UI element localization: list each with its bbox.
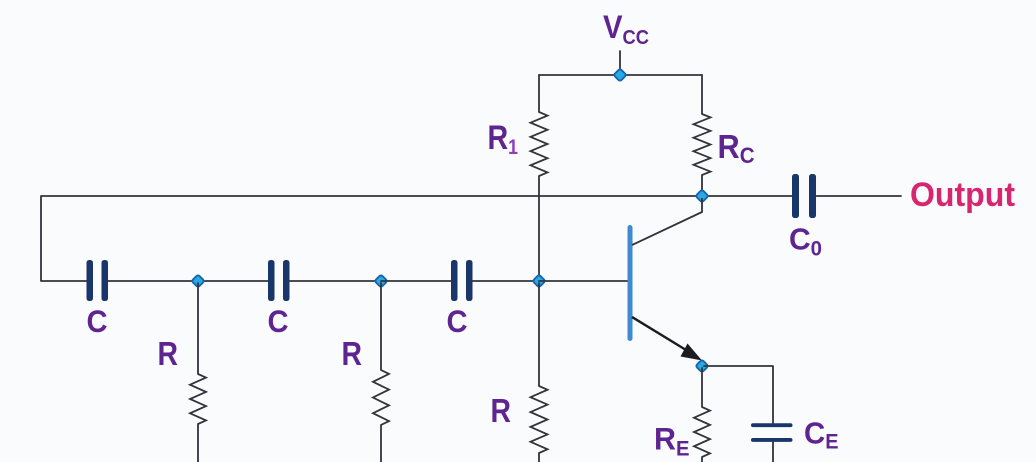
wire R1 bottom lead to base node <box>538 176 540 281</box>
resistor RC <box>694 114 711 175</box>
wire R3rd bottom lead <box>538 453 540 462</box>
node ladder junction 1 <box>191 274 204 287</box>
wire RE bottom lead <box>701 457 703 462</box>
wire R2nd bottom lead <box>380 425 382 462</box>
wire R1st bottom lead <box>197 424 199 462</box>
wire R1 top lead <box>538 75 540 112</box>
capacitor C first phase-shift <box>87 260 109 301</box>
svg-text:C: C <box>268 303 289 339</box>
wire collector node to C0 <box>702 195 792 197</box>
wire emitter to CE <box>704 366 773 423</box>
capacitor C0 output coupling <box>792 174 816 218</box>
svg-text:C: C <box>447 303 468 339</box>
wire base wire <box>539 280 628 282</box>
wire VCC stub <box>619 51 621 69</box>
capacitor C third phase-shift <box>451 260 473 301</box>
node VCC junction <box>613 68 626 81</box>
resistor R1 <box>531 112 548 176</box>
wire emitter node drop <box>701 368 703 407</box>
wire cap1 to node1 <box>108 280 269 282</box>
resistor R second phase-shift <box>373 370 389 425</box>
resistor R first phase-shift <box>190 374 206 424</box>
node base junction <box>532 274 545 287</box>
wire node2 drop <box>380 283 382 370</box>
wire feedback rail from output node <box>41 196 539 281</box>
wire RC top lead <box>701 75 703 114</box>
svg-text:R: R <box>342 335 363 372</box>
wire RC bottom lead <box>701 175 703 196</box>
wire base node drop <box>538 283 540 386</box>
wire node2 to cap3 <box>381 280 451 282</box>
resistor RE emitter <box>694 407 710 457</box>
resistor R third phase-shift <box>531 386 548 453</box>
wire output node rail left <box>539 195 702 197</box>
wire cap2 to node2 <box>289 280 382 282</box>
capacitor CE bypass <box>751 423 793 442</box>
svg-text:R: R <box>158 335 179 372</box>
transistor Q1 <box>628 198 703 361</box>
svg-text:C: C <box>87 303 108 339</box>
svg-text:Output: Output <box>910 176 1015 214</box>
wire VCC rail <box>539 74 702 76</box>
svg-text:R: R <box>491 392 512 429</box>
node collector output junction <box>695 189 708 202</box>
wire C0 to output <box>817 195 902 197</box>
capacitor C second phase-shift <box>268 260 290 301</box>
node emitter junction <box>695 359 708 372</box>
node ladder junction 2 <box>374 274 387 287</box>
wire CE bottom lead <box>772 442 774 462</box>
wire node1 drop <box>197 283 199 374</box>
wire cap3 to base node <box>471 280 540 282</box>
